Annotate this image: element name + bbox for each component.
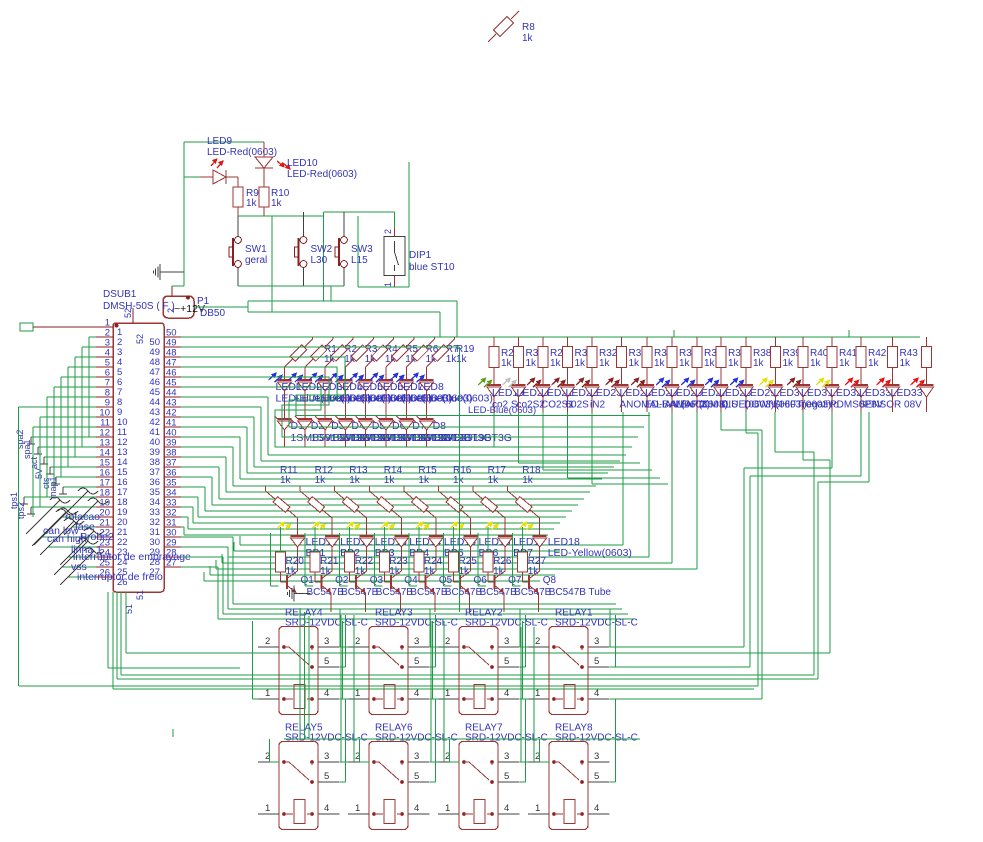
diode D3 bbox=[315, 416, 410, 447]
LED LED13 bbox=[347, 521, 407, 571]
wire bbox=[360, 739, 370, 762]
switch SW2 bbox=[295, 237, 333, 286]
transistor Q5 bbox=[419, 571, 483, 598]
LED LED12 bbox=[312, 521, 372, 571]
wire bbox=[125, 592, 127, 653]
wire bbox=[116, 592, 118, 679]
wire bbox=[54, 387, 96, 487]
resistor R16 label bbox=[453, 465, 472, 486]
svg-text:5: 5 bbox=[504, 771, 509, 782]
P1-DSUB wire bbox=[132, 308, 134, 323]
LED LED14 bbox=[381, 521, 441, 571]
resistor R25 bbox=[449, 527, 478, 577]
svg-text:DMSH-50S ( F ): DMSH-50S ( F ) bbox=[103, 301, 175, 312]
wire bbox=[253, 621, 259, 699]
svg-text:36: 36 bbox=[166, 468, 177, 479]
svg-text:44: 44 bbox=[166, 388, 177, 399]
wire bbox=[592, 412, 668, 484]
LED LED15 bbox=[416, 521, 476, 571]
svg-text:36: 36 bbox=[149, 477, 160, 488]
svg-text:DIP1: DIP1 bbox=[409, 250, 432, 261]
wire bbox=[434, 593, 436, 612]
svg-text:5: 5 bbox=[504, 656, 509, 667]
LED LED2 bbox=[289, 372, 371, 419]
svg-text:3: 3 bbox=[504, 636, 509, 647]
svg-text:40: 40 bbox=[149, 437, 160, 448]
svg-text:1k: 1k bbox=[522, 475, 534, 486]
net can low bbox=[34, 508, 96, 545]
resistor R39 bbox=[771, 337, 802, 386]
wire bbox=[533, 627, 535, 762]
LED LED17 bbox=[485, 521, 545, 571]
resistor R7 bbox=[406, 337, 459, 381]
resistor R14 bbox=[369, 486, 401, 537]
svg-text:3: 3 bbox=[324, 636, 329, 647]
svg-text:33: 33 bbox=[149, 507, 160, 518]
svg-text:4: 4 bbox=[324, 803, 329, 814]
LED LEDx bbox=[911, 377, 934, 412]
relay RELAY3 bbox=[348, 608, 458, 715]
net vss bbox=[54, 538, 98, 575]
wire bbox=[343, 621, 349, 699]
svg-text:1k: 1k bbox=[550, 358, 562, 369]
svg-text:37: 37 bbox=[149, 467, 160, 478]
svg-text:tps2: tps2 bbox=[16, 502, 26, 519]
DSUB1 labels bbox=[103, 289, 175, 312]
svg-text:52: 52 bbox=[123, 308, 133, 318]
svg-text:50: 50 bbox=[149, 337, 160, 348]
resistor R42 bbox=[856, 337, 887, 386]
wire bbox=[228, 412, 649, 557]
svg-text:1k: 1k bbox=[246, 198, 258, 209]
wire bbox=[264, 212, 324, 301]
wire bbox=[248, 286, 457, 337]
wire bbox=[19, 412, 758, 686]
svg-text:5: 5 bbox=[594, 771, 599, 782]
wire bbox=[222, 412, 672, 563]
svg-text:SRD-12VDC-SL-C: SRD-12VDC-SL-C bbox=[285, 618, 368, 629]
resistor R31 bbox=[514, 337, 545, 386]
diode D4 bbox=[335, 416, 430, 447]
svg-text:iN2: iN2 bbox=[590, 400, 605, 411]
wire bbox=[609, 609, 611, 647]
connector P1 bbox=[163, 272, 205, 318]
net 5V bbox=[34, 467, 96, 479]
wire bbox=[108, 592, 240, 668]
svg-text:L15: L15 bbox=[351, 255, 368, 266]
resistor R4 bbox=[345, 337, 398, 381]
LED LED25 bbox=[631, 377, 710, 412]
wire bbox=[540, 739, 550, 762]
svg-text:1k: 1k bbox=[453, 475, 465, 486]
resistor R36 bbox=[692, 337, 723, 386]
wire bbox=[478, 527, 488, 586]
svg-text:31: 31 bbox=[166, 518, 177, 529]
svg-text:SRD-12VDC-SL-C: SRD-12VDC-SL-C bbox=[465, 618, 548, 629]
resistor R5 bbox=[366, 337, 419, 381]
svg-text:SENSOR 08V: SENSOR 08V bbox=[859, 400, 922, 411]
svg-text:D8: D8 bbox=[433, 420, 447, 432]
wire staircase bundle bbox=[181, 347, 650, 619]
svg-text:1k: 1k bbox=[456, 354, 468, 365]
wire bbox=[304, 612, 306, 739]
LED LED11 bbox=[278, 521, 337, 571]
svg-text:SW1: SW1 bbox=[245, 244, 267, 255]
net interruptor de embrayage bbox=[60, 528, 191, 565]
svg-text:42: 42 bbox=[149, 417, 160, 428]
wire bbox=[340, 615, 342, 762]
resistor R3 bbox=[325, 337, 378, 381]
svg-text:3: 3 bbox=[324, 751, 329, 762]
wire bbox=[308, 616, 310, 739]
DSUB right pins 27-50 bbox=[149, 328, 181, 579]
wire bbox=[339, 609, 341, 647]
svg-text:interruptor de freio: interruptor de freio bbox=[77, 571, 163, 583]
svg-text:LED33: LED33 bbox=[891, 387, 923, 399]
wire bbox=[538, 593, 540, 612]
svg-text:DSUB1: DSUB1 bbox=[103, 289, 137, 300]
P1 labels bbox=[197, 296, 225, 319]
svg-text:4: 4 bbox=[594, 803, 599, 814]
svg-text:49: 49 bbox=[149, 347, 160, 358]
svg-text:1k: 1k bbox=[783, 358, 795, 369]
LED LED31 bbox=[787, 377, 839, 412]
wire bbox=[568, 412, 661, 478]
svg-text:LED10: LED10 bbox=[287, 158, 318, 169]
wire bbox=[430, 615, 436, 667]
resistor R2 bbox=[305, 337, 358, 381]
wire bbox=[610, 615, 616, 667]
wire bbox=[469, 593, 471, 612]
relay RELAY4 bbox=[258, 608, 368, 715]
svg-text:1k: 1k bbox=[384, 475, 396, 486]
svg-text:linha 1: linha 1 bbox=[71, 544, 102, 556]
wire bbox=[240, 412, 623, 545]
svg-text:2: 2 bbox=[383, 229, 393, 234]
svg-text:L30: L30 bbox=[311, 255, 328, 266]
net cts bbox=[41, 477, 96, 489]
svg-text:43: 43 bbox=[149, 407, 160, 418]
svg-text:SRD-12VDC-SL-C: SRD-12VDC-SL-C bbox=[465, 733, 548, 744]
resistor R15 bbox=[404, 486, 436, 537]
svg-text:44: 44 bbox=[149, 397, 160, 408]
resistor R9 bbox=[233, 187, 259, 216]
svg-text:33: 33 bbox=[166, 498, 177, 509]
wire bbox=[33, 427, 96, 517]
resistor R1 bbox=[285, 337, 338, 381]
LED LED33 bbox=[877, 377, 923, 412]
wire bbox=[184, 142, 264, 272]
svg-text:42: 42 bbox=[166, 408, 177, 419]
wire bbox=[430, 739, 436, 782]
wire bbox=[340, 761, 349, 763]
pin 52 labels bbox=[123, 308, 145, 344]
relay RELAY1 bbox=[528, 608, 638, 715]
wire bbox=[271, 527, 281, 586]
LED LED33 bbox=[845, 377, 922, 412]
svg-text:45: 45 bbox=[166, 378, 177, 389]
svg-text:1k: 1k bbox=[629, 358, 641, 369]
LED LED18 bbox=[520, 521, 632, 571]
svg-text:32: 32 bbox=[166, 508, 177, 519]
svg-text:BC547B Tube: BC547B Tube bbox=[549, 587, 612, 598]
svg-text:1: 1 bbox=[355, 803, 360, 814]
resistor R37 bbox=[716, 337, 747, 386]
resistor R19 input bbox=[427, 337, 455, 381]
wire bbox=[305, 527, 315, 586]
LED LED1 bbox=[269, 372, 351, 419]
svg-text:4: 4 bbox=[594, 688, 599, 699]
svg-text:SRD-12VDC-SL-C: SRD-12VDC-SL-C bbox=[375, 618, 458, 629]
LED LED23 bbox=[576, 377, 622, 412]
transistor Q1 bbox=[281, 571, 345, 598]
svg-text:1k: 1k bbox=[522, 33, 534, 44]
svg-text:34: 34 bbox=[166, 488, 177, 499]
svg-text:SW2: SW2 bbox=[311, 244, 333, 255]
LED LED24 bbox=[606, 377, 707, 412]
wire bbox=[68, 367, 96, 467]
wire bbox=[409, 527, 419, 586]
LED LED6 bbox=[370, 372, 452, 419]
wire bbox=[430, 621, 432, 762]
wire bbox=[610, 412, 762, 699]
resistor R6 bbox=[386, 337, 439, 381]
wire bbox=[459, 347, 461, 612]
svg-text:DB50: DB50 bbox=[200, 308, 225, 319]
svg-text:blue ST10: blue ST10 bbox=[409, 262, 455, 273]
ground bbox=[287, 586, 310, 602]
resistor R40 bbox=[798, 337, 829, 386]
net spa1 bbox=[22, 439, 96, 459]
connector DSUB1 body bbox=[113, 323, 164, 592]
svg-text:5: 5 bbox=[414, 656, 419, 667]
resistor R34 bbox=[642, 337, 673, 386]
wire bbox=[520, 627, 522, 762]
wire bbox=[358, 216, 409, 287]
resistor R43 bbox=[888, 337, 919, 386]
wire bbox=[494, 412, 632, 447]
svg-text:39: 39 bbox=[149, 447, 160, 458]
svg-text:4: 4 bbox=[504, 688, 509, 699]
svg-text:1k: 1k bbox=[271, 198, 283, 209]
switch SW1 bbox=[229, 237, 267, 286]
wire bbox=[204, 572, 540, 581]
svg-text:50: 50 bbox=[166, 328, 177, 339]
svg-text:4: 4 bbox=[324, 688, 329, 699]
svg-text:spa1: spa1 bbox=[22, 439, 32, 459]
svg-text:1: 1 bbox=[355, 688, 360, 699]
LED LED22 bbox=[552, 377, 598, 412]
net tps2 bbox=[16, 502, 96, 519]
svg-text:1k: 1k bbox=[575, 358, 587, 369]
wire bbox=[610, 412, 832, 647]
LED LED21 bbox=[527, 377, 574, 412]
svg-text:4: 4 bbox=[504, 803, 509, 814]
svg-text:Q8: Q8 bbox=[543, 575, 557, 586]
wire bbox=[19, 407, 97, 686]
resistor R20 bbox=[276, 527, 305, 577]
LED8 extra label bbox=[468, 405, 536, 416]
wire bbox=[270, 739, 280, 762]
svg-text:1k: 1k bbox=[728, 358, 740, 369]
resistor R12 bbox=[300, 486, 332, 537]
relay RELAY7 bbox=[438, 723, 548, 830]
svg-text:39: 39 bbox=[166, 438, 177, 449]
svg-text:SRD-12VDC-SL-C: SRD-12VDC-SL-C bbox=[375, 733, 458, 744]
svg-text:5: 5 bbox=[324, 656, 329, 667]
wire bbox=[520, 739, 526, 782]
net rotacao bbox=[54, 488, 100, 525]
resistor R15 label bbox=[418, 465, 437, 486]
resistor R27 bbox=[518, 527, 547, 577]
relay RELAY6 bbox=[348, 723, 458, 830]
LED LED4 bbox=[329, 372, 411, 419]
wire bbox=[238, 216, 272, 312]
svg-text:46: 46 bbox=[149, 377, 160, 388]
wire bbox=[343, 212, 345, 236]
wire bbox=[324, 212, 395, 228]
wire bbox=[40, 417, 96, 507]
svg-text:1: 1 bbox=[383, 282, 393, 287]
wire bbox=[353, 615, 355, 762]
wire bbox=[523, 621, 529, 699]
wire bbox=[61, 377, 96, 477]
svg-text:1k: 1k bbox=[839, 358, 851, 369]
wire bbox=[82, 347, 96, 447]
wire bbox=[126, 412, 830, 653]
svg-text:3: 3 bbox=[504, 751, 509, 762]
resistor R10 bbox=[259, 187, 290, 216]
svg-text:Q7: Q7 bbox=[508, 575, 522, 586]
diode D1 bbox=[275, 416, 370, 447]
svg-text:R8: R8 bbox=[522, 22, 535, 33]
resistor R13 bbox=[335, 486, 367, 537]
svg-text:49: 49 bbox=[166, 338, 177, 349]
resistor R29 bbox=[538, 337, 569, 386]
wire bbox=[610, 412, 861, 667]
svg-text:Q3: Q3 bbox=[370, 575, 384, 586]
svg-text:4: 4 bbox=[414, 803, 419, 814]
wire bbox=[237, 216, 239, 236]
LED10 bbox=[255, 142, 291, 187]
wire bbox=[238, 285, 344, 287]
svg-text:5: 5 bbox=[324, 771, 329, 782]
resistor R28 bbox=[489, 337, 520, 386]
resistor R44 bbox=[922, 337, 932, 386]
wire bbox=[374, 527, 384, 586]
diode D8 bbox=[417, 416, 512, 447]
svg-text:1: 1 bbox=[265, 688, 270, 699]
wire bbox=[610, 699, 616, 739]
svg-text:LED9: LED9 bbox=[207, 136, 232, 147]
resistor R11 bbox=[266, 486, 298, 537]
switch DIP1 bbox=[383, 228, 405, 287]
relay RELAY8 bbox=[528, 723, 638, 830]
svg-text:2: 2 bbox=[535, 636, 540, 647]
wire bbox=[520, 646, 529, 648]
svg-text:Q1: Q1 bbox=[301, 575, 315, 586]
resistor R17 label bbox=[488, 465, 507, 486]
wire bbox=[340, 615, 346, 667]
wire bbox=[112, 592, 114, 689]
svg-text:5V: 5V bbox=[34, 468, 44, 479]
wire bbox=[443, 621, 445, 762]
wire bbox=[75, 357, 96, 457]
resistor R18 label bbox=[522, 465, 541, 486]
wire bbox=[519, 412, 641, 463]
wire bbox=[444, 527, 454, 586]
wire bbox=[120, 592, 122, 675]
svg-text:1k: 1k bbox=[900, 358, 912, 369]
wire bbox=[395, 162, 410, 287]
wire bbox=[113, 688, 754, 690]
wire bbox=[520, 615, 526, 667]
LED LED5 bbox=[350, 372, 432, 419]
svg-text:31: 31 bbox=[149, 527, 160, 538]
pin 51 labels bbox=[124, 590, 145, 614]
resistor R22 bbox=[345, 527, 374, 577]
bus +12V bbox=[181, 330, 920, 337]
resistor R12 label bbox=[315, 465, 334, 486]
LED LED3 bbox=[309, 372, 391, 419]
svg-text:Probe2: Probe2 bbox=[80, 531, 114, 543]
wire bbox=[121, 412, 814, 675]
resistor R16 bbox=[439, 486, 471, 537]
svg-text:30: 30 bbox=[166, 528, 177, 539]
svg-text:30: 30 bbox=[149, 537, 160, 548]
LED LED19 bbox=[478, 377, 524, 412]
resistor R30 bbox=[563, 337, 594, 386]
svg-text:SRD-12VDC-SL-C: SRD-12VDC-SL-C bbox=[555, 618, 638, 629]
transistor Q3 bbox=[350, 571, 414, 598]
transistor Q7 bbox=[488, 571, 552, 598]
svg-text:46: 46 bbox=[166, 368, 177, 379]
transistor Q8 bbox=[523, 571, 612, 598]
wire bbox=[519, 609, 521, 647]
svg-text:Q6: Q6 bbox=[474, 575, 488, 586]
wire bbox=[299, 608, 301, 739]
svg-text:3: 3 bbox=[594, 751, 599, 762]
svg-text:1SMB5919BT3G: 1SMB5919BT3G bbox=[433, 432, 512, 444]
resistor R33 bbox=[617, 337, 648, 386]
resistor R11 label bbox=[280, 465, 298, 486]
resistor R14 label bbox=[384, 465, 403, 486]
wire bbox=[47, 397, 96, 497]
svg-text:47: 47 bbox=[166, 358, 177, 369]
svg-text:Q5: Q5 bbox=[439, 575, 453, 586]
wire bbox=[340, 646, 349, 648]
svg-text:1k: 1k bbox=[526, 358, 538, 369]
resistor R38 bbox=[741, 337, 772, 386]
svg-text:1: 1 bbox=[535, 688, 540, 699]
svg-text:Q4: Q4 bbox=[404, 575, 418, 586]
wire bbox=[610, 739, 616, 782]
svg-text:29: 29 bbox=[166, 538, 177, 549]
LED LED16 bbox=[451, 521, 511, 571]
wire bbox=[430, 761, 439, 763]
resistor R18 bbox=[508, 486, 540, 537]
relay RELAY5 bbox=[258, 723, 368, 830]
svg-text:3: 3 bbox=[594, 636, 599, 647]
svg-text:1k: 1k bbox=[654, 358, 666, 369]
svg-text:1k: 1k bbox=[315, 475, 327, 486]
svg-text:3: 3 bbox=[414, 751, 419, 762]
LED LED26 bbox=[656, 377, 728, 412]
LED LED20 bbox=[503, 377, 549, 412]
wire bbox=[216, 412, 697, 569]
relay RELAY2 bbox=[438, 608, 548, 715]
LED LED29 bbox=[730, 377, 805, 412]
